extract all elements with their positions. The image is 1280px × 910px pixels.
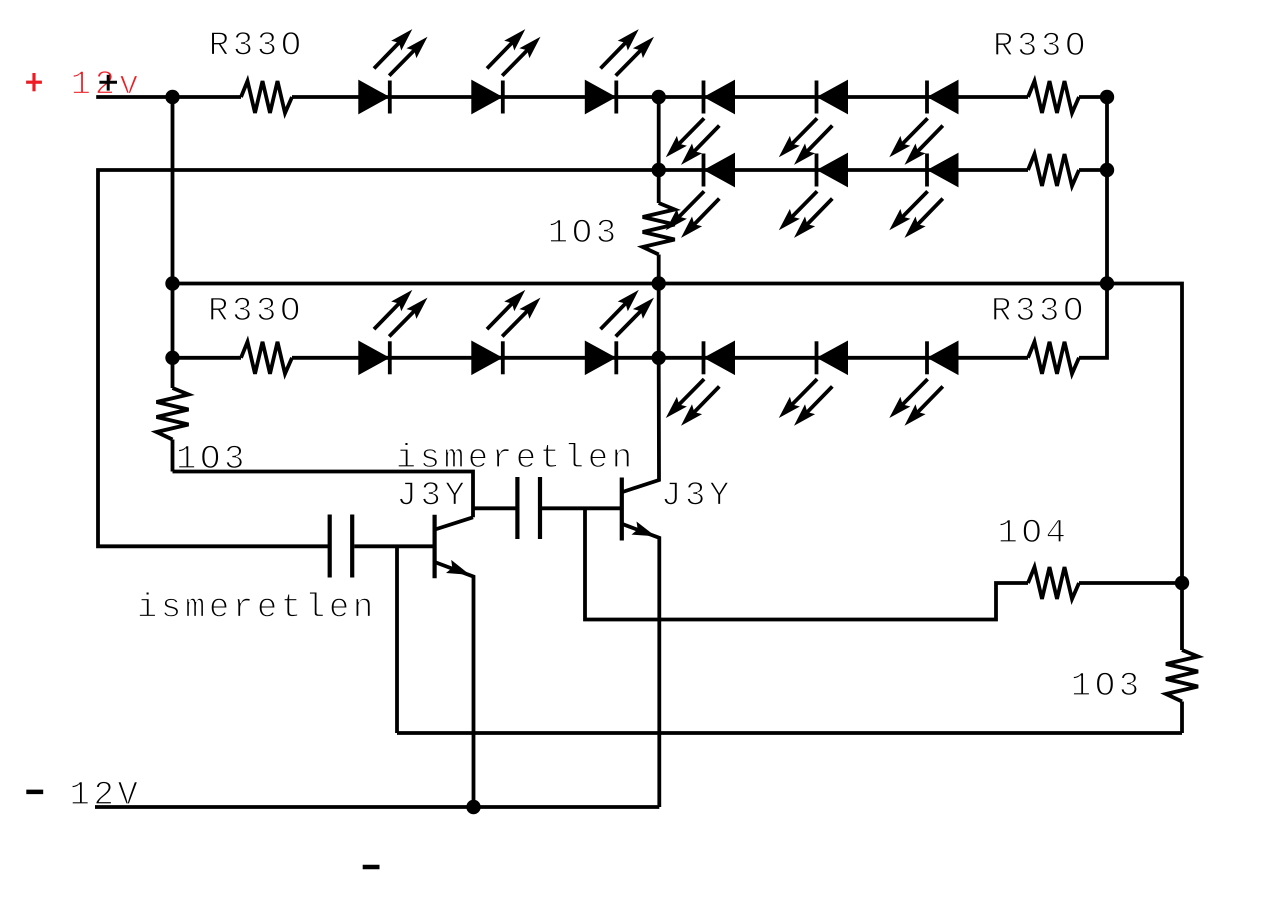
resistor 103 (right vertical) [1166,650,1198,702]
wire row3 rail right end rising to middle bus [1079,284,1107,358]
svg-text:J3Y: J3Y [661,477,733,515]
power symbol + mark at +12V feed [99,75,117,91]
svg-text:R33O: R33O [991,293,1087,331]
junction node C2 [652,276,666,290]
wire vertical left bus x=172 [171,97,175,358]
wire stub below resistor 103 left [171,440,175,472]
svg-text:R33O: R33O [993,28,1089,66]
transistor Q1 (J3Y) [435,515,474,807]
capacitor C2 (ismeretlen) [517,477,540,539]
LED D11 [472,290,541,374]
wire C2 left lead [473,506,516,510]
wire middle bus rail with right-side drop [173,284,1183,584]
wire stub above resistor 103 left [171,358,175,388]
wire resistor 104 to right bus [1079,581,1182,585]
LED D3 [585,29,654,113]
junction node F1 [466,800,480,814]
LED D13 [666,341,735,425]
junction node B2 [1100,163,1114,177]
LED D10 [359,290,428,374]
ground - mark at bottom [363,865,380,870]
resistor R330 (row3 left) [241,342,292,374]
wire Q1 base lead from capacitor C1 [354,544,433,548]
LED D15 [889,341,958,425]
power symbol plus sign of +12v (red) [26,73,42,91]
junction node C1 [165,276,179,290]
junction node D1n [165,351,179,365]
svg-text:R33O: R33O [209,28,305,66]
resistor R330 (row3 right) [1028,342,1079,374]
wire row2 rail with left drop to coupling capacitor C1 [98,170,659,546]
svg-text:R33O: R33O [208,293,304,331]
resistor R330 (top left) [241,81,292,113]
LED D5 [779,81,848,165]
wire vertical right bus x=1107 [1105,97,1109,284]
svg-text:1O3: 1O3 [1071,668,1143,706]
power symbol minus sign of -12V [26,790,43,795]
LED D7 [666,154,735,238]
wire stub below resistor 103 centre [657,255,661,358]
resistor 103 (left vertical) [157,388,189,440]
wire stub below resistor 103 right to bottom rail [1180,702,1184,734]
wire +12V rail left segment [96,95,241,99]
wire +12V rail right end [1079,95,1107,99]
wire +12V rail middle segment through LEDs [292,95,1028,99]
wire -12V rail [95,805,659,809]
resistor R330 (top right) [1028,81,1079,113]
wire stub above resistor 103 centre [657,97,661,203]
LED D1 [359,29,428,113]
resistor R330 (row2 right) [1028,154,1079,186]
transistor Q2 (J3Y) [622,358,660,807]
svg-text:ismeretlen: ismeretlen [137,589,377,627]
svg-text:1O4: 1O4 [998,515,1070,553]
wire row2 rail right end [1079,168,1107,172]
junction node A1 [165,90,179,104]
resistor 103 (centre vertical) [643,203,675,255]
LED D6 [889,81,958,165]
junction node E1 [1175,576,1189,590]
wire row3 rail left segment [173,356,242,360]
LED D9 [889,154,958,238]
LED D4 [666,81,735,165]
wire stub above resistor 103 right [1180,583,1184,650]
wire Q2 base divider down and right to resistor 104 [585,508,1028,619]
svg-text:1O3: 1O3 [548,215,620,253]
wire row3 rail middle segment through LEDs [292,356,1028,360]
resistor 104 [1028,567,1079,599]
wire C2 right lead to Q2 base [542,506,620,510]
junction node A3 [1100,90,1114,104]
LED D8 [779,154,848,238]
wire bottom return rail y=733 [397,731,1182,735]
junction node A2 [652,90,666,104]
capacitor C1 (ismeretlen) [330,515,353,578]
junction node C3 [1100,276,1114,290]
svg-text:J3Y: J3Y [397,477,469,515]
svg-text:12V: 12V [22,777,142,815]
LED D2 [472,29,541,113]
wire row2 rail middle segment through LEDs [659,168,1028,172]
wire link to Q1 collector [173,472,474,518]
LED D12 [585,290,654,374]
wire from Q1 base down x=397 [395,546,399,733]
junction node D2n [652,351,666,365]
LED D14 [779,341,848,425]
junction node B1 [652,163,666,177]
